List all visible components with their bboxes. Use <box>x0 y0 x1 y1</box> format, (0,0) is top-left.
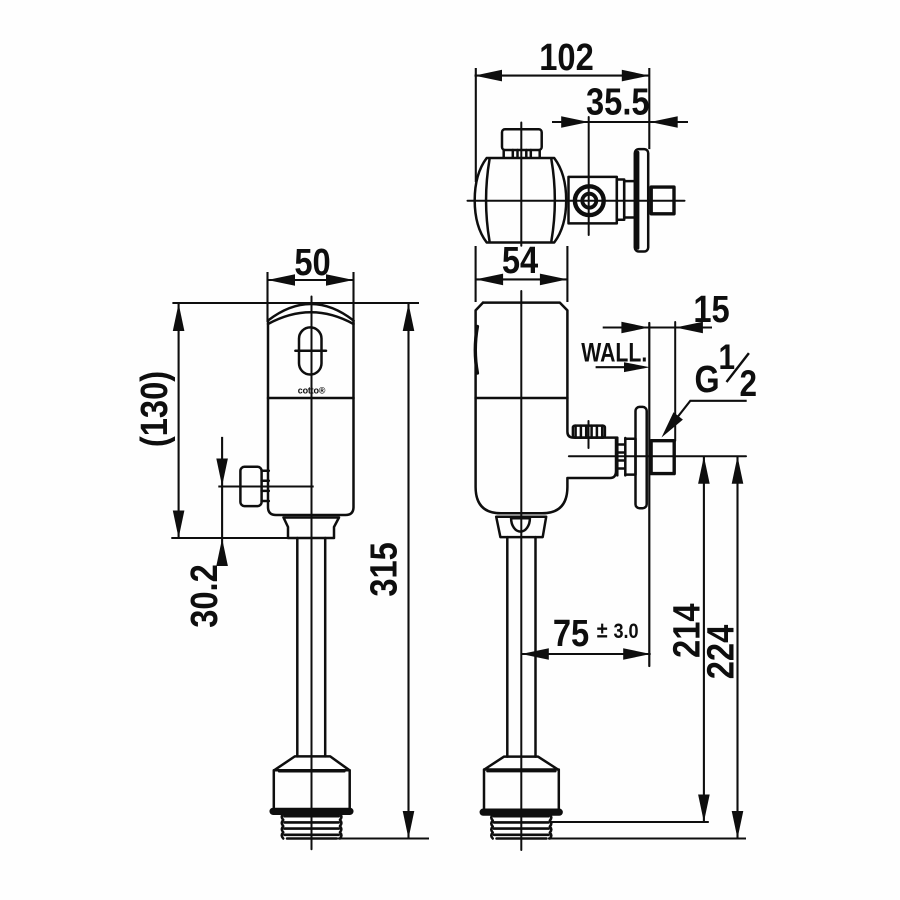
dim 214 line <box>703 456 705 822</box>
side view: adjust screw comb <box>573 426 605 438</box>
G1/2 leader line <box>665 401 747 433</box>
dim 130 line <box>178 303 180 538</box>
svg-text:102: 102 <box>539 36 594 79</box>
arrow 130 bottom <box>173 511 185 539</box>
top view: collar step 2 <box>624 181 635 217</box>
top view: connector housing rectangle <box>569 177 617 224</box>
arrow 102 right <box>622 70 650 82</box>
arrow 130 top <box>173 304 185 332</box>
top view: screw outer ring <box>575 186 604 215</box>
arrow 75 right <box>623 648 651 660</box>
top view: G1/2 stub <box>651 187 674 214</box>
front view: fitting trapezoid <box>274 756 349 770</box>
extension line y822 <box>551 821 709 823</box>
top view: screw inner ring <box>582 194 596 208</box>
dim 102 left extension <box>475 68 477 182</box>
front view: fitting flange bar <box>271 809 353 814</box>
dim 50 left extension <box>266 272 268 322</box>
side view: stub end extension line <box>674 322 676 441</box>
dim 102 line <box>475 75 650 77</box>
top view: barrel inner left arc <box>486 160 489 242</box>
arrow WALL leader <box>624 362 650 372</box>
front view: body top inner arc <box>268 312 354 324</box>
arrow 30.2 lower <box>216 539 228 567</box>
front view: fitting inner line <box>279 771 345 773</box>
side view: body outline with inlet arm <box>483 303 617 438</box>
front view: side valve body <box>240 467 261 506</box>
side view: fitting flange bar <box>481 810 562 815</box>
arrow 214 bottom <box>698 795 710 823</box>
top view: horizontal centerline <box>468 200 685 202</box>
top view: barrel inner right arc <box>551 160 554 242</box>
front view: thread right wavy edge <box>340 814 342 839</box>
arrow 102 left <box>475 70 503 82</box>
arrow 214 top <box>698 456 710 484</box>
extension line y538 <box>171 537 288 539</box>
arrow 75 left <box>521 648 549 660</box>
dim 54 right extension <box>566 246 568 302</box>
dim 102/35.5 right extension <box>648 68 650 149</box>
svg-text:(130): (130) <box>133 371 176 447</box>
side view: thread bottom <box>497 837 547 840</box>
side view: screw centerline <box>588 421 590 448</box>
top view: vertical centerline through cap <box>520 123 522 246</box>
dim 75 line <box>521 653 650 655</box>
svg-text:30.2: 30.2 <box>183 564 226 628</box>
arrow 30.2 upper <box>216 459 228 487</box>
front view: outlet pipe left line <box>296 538 299 756</box>
front view: sensor window oval <box>299 327 322 374</box>
side view: comb teeth <box>576 426 603 438</box>
front view: body top outer arc <box>268 304 354 321</box>
svg-text:50: 50 <box>294 241 330 284</box>
arrow 54 left <box>476 274 504 286</box>
dim 30.2 line <box>221 437 223 564</box>
front view: side valve ribs <box>262 471 269 501</box>
side view: inlet coupling <box>625 439 635 475</box>
svg-text:75: 75 <box>553 612 589 655</box>
dim 50 right extension <box>352 272 354 322</box>
side view: inlet ribbed nut <box>617 438 625 475</box>
top view: valve body barrel <box>475 158 567 243</box>
side view: fitting body sides <box>484 770 559 811</box>
side view: outlet neck <box>496 517 546 537</box>
side view: sensor lens edge <box>475 327 477 374</box>
front view: body outline <box>268 321 354 516</box>
side view: inlet centerline <box>569 455 746 457</box>
svg-text:35.5: 35.5 <box>586 80 650 123</box>
svg-text:±: ± <box>597 619 608 643</box>
top extension line y303 <box>172 302 419 304</box>
svg-text:54: 54 <box>502 239 539 282</box>
arrow 54 right <box>540 274 568 286</box>
arrow G1/2 leader <box>662 412 683 437</box>
side view: G1/2 stub <box>651 441 674 474</box>
top view: cap collar with notches <box>504 150 540 158</box>
fraction slash <box>727 353 749 382</box>
top view: sensor cap square <box>502 129 542 150</box>
front view: fitting body sides <box>274 770 350 809</box>
svg-text:2: 2 <box>740 363 757 404</box>
arrow 15 right <box>675 322 703 334</box>
side view: fitting trapezoid <box>484 757 558 770</box>
svg-text:3.0: 3.0 <box>614 620 639 644</box>
bottom extension line y838.5 <box>337 837 429 839</box>
side view: body seam line <box>476 397 568 400</box>
side view: outlet pipe right line <box>534 537 537 757</box>
top view: collar step 1 <box>617 180 624 220</box>
WALL leader line <box>596 366 644 368</box>
svg-text:cotto®: cotto® <box>298 385 326 395</box>
arrow 50 right <box>326 274 354 286</box>
top view: wall flange plate <box>635 149 648 251</box>
svg-text:WALL.: WALL. <box>581 338 647 368</box>
dim 15 line <box>603 326 712 328</box>
top view: flange thick left edge <box>636 153 640 249</box>
side view: outlet detail arc <box>511 518 530 531</box>
front view: thread left wavy edge <box>282 814 284 839</box>
front view: vertical centerline <box>311 297 313 850</box>
svg-text:224: 224 <box>699 624 742 679</box>
side view: thread right wavy edge <box>550 815 552 839</box>
svg-text:G: G <box>695 359 720 401</box>
side view: thread ridges <box>494 816 549 835</box>
front view: outlet pipe right line <box>324 538 327 756</box>
svg-text:1: 1 <box>719 338 736 377</box>
arrow 224 top <box>732 456 744 484</box>
dim 50 line <box>268 279 354 281</box>
front view: thread ridges <box>285 816 339 835</box>
side view: wall flange plate <box>636 407 647 508</box>
wall line <box>648 323 650 666</box>
side view: arm bottom and body lower outline <box>476 303 616 514</box>
arrow 35.5 left <box>561 116 589 128</box>
front view: body seam line <box>268 397 354 400</box>
dim 54 line <box>476 278 568 280</box>
front view: thread bottom <box>287 837 337 840</box>
arrow 315 bottom <box>403 811 415 839</box>
side view: thread left wavy edge <box>491 815 493 839</box>
arrow 15 left <box>621 322 649 334</box>
dim 35.5 line <box>552 121 688 123</box>
top view: screw vertical centerline <box>588 117 590 235</box>
svg-text:315: 315 <box>362 542 405 597</box>
svg-text:15: 15 <box>693 288 729 331</box>
side view: vertical centerline <box>520 291 522 850</box>
arrow 35.5 right <box>650 116 678 128</box>
front view: line through oval <box>295 349 326 352</box>
arrow 224 bottom <box>732 811 744 839</box>
arrow 50 left <box>268 274 296 286</box>
dim 315 line <box>407 303 409 839</box>
arrow 315 top <box>403 304 415 332</box>
dim 224 line <box>736 456 738 838</box>
valve center extension line <box>218 485 313 487</box>
side view: outlet pipe left line <box>506 537 509 757</box>
extension line y838.5 right part <box>548 837 746 839</box>
side view: fitting inner line <box>487 770 555 772</box>
dim 54 left extension <box>475 246 477 302</box>
front view: outlet neck <box>284 518 340 539</box>
